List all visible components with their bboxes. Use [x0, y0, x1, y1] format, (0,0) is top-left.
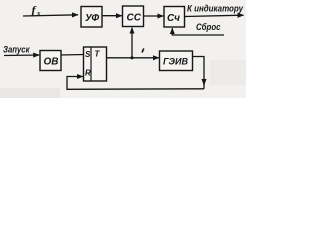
svg-text:S: S	[85, 50, 91, 59]
svg-text:x: x	[36, 10, 41, 18]
svg-text:Сч: Сч	[167, 13, 180, 24]
svg-text:Запуск: Запуск	[3, 45, 30, 55]
svg-text:УФ: УФ	[85, 13, 99, 24]
svg-text:ГЭИВ: ГЭИВ	[163, 57, 188, 67]
svg-text:ОВ: ОВ	[44, 57, 59, 68]
svg-text:К индикатору: К индикатору	[187, 4, 244, 14]
svg-text:Сброс: Сброс	[196, 22, 221, 32]
svg-text:R: R	[85, 69, 91, 78]
svg-text:СС: СС	[127, 13, 142, 24]
